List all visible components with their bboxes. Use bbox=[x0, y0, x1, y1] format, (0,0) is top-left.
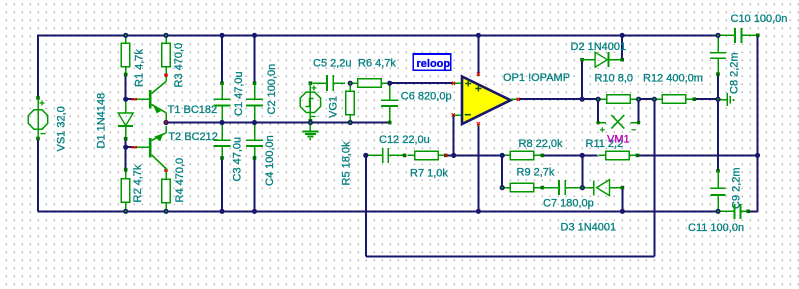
junction bottom rail C9 bbox=[715, 209, 720, 214]
resistor R9 bbox=[502, 183, 544, 192]
svg-text:C12 22,0u: C12 22,0u bbox=[379, 134, 430, 146]
svg-text:reloop: reloop bbox=[417, 58, 451, 70]
wire D3 anode to bottom rail bbox=[621, 188, 623, 212]
junction R8 R9 bbox=[500, 153, 505, 158]
svg-text:R3 470,0: R3 470,0 bbox=[173, 43, 185, 88]
junction D1 T2 base bbox=[123, 145, 128, 150]
svg-text:C11 100,0n: C11 100,0n bbox=[688, 222, 744, 234]
capacitor C11 bbox=[720, 204, 751, 219]
junction top rail opamp supply bbox=[476, 33, 481, 38]
capacitor C8 bbox=[710, 37, 726, 76]
resistor R3 bbox=[162, 35, 171, 77]
resistor R12 bbox=[654, 95, 696, 104]
svg-text:R8 22,0k: R8 22,0k bbox=[519, 138, 564, 150]
junction bottom rail R2 bbox=[123, 209, 128, 214]
svg-text:D3 1N4001: D3 1N4001 bbox=[561, 222, 617, 234]
diode D1 bbox=[118, 99, 133, 140]
junction bottom rail C3 bbox=[219, 209, 224, 214]
text box reloop bbox=[413, 54, 451, 70]
svg-text:C7 180,0p: C7 180,0p bbox=[543, 198, 594, 210]
junction top rail R3 bbox=[163, 33, 168, 38]
wire VM1 left terminal bbox=[597, 99, 599, 122]
svg-text:R10 8,0: R10 8,0 bbox=[595, 73, 634, 85]
capacitor C1 bbox=[214, 81, 231, 120]
wire C1 top bbox=[221, 35, 223, 83]
capacitor C2 bbox=[246, 81, 263, 120]
junction emitters ground bbox=[163, 120, 168, 125]
svg-text:VG1: VG1 bbox=[328, 96, 340, 118]
wire C7 to D3 node vertical bbox=[581, 155, 583, 187]
junction C7 D3 bbox=[580, 185, 585, 190]
junction top rail C1 bbox=[219, 33, 224, 38]
svg-text:R7 1,0k: R7 1,0k bbox=[410, 168, 448, 180]
wire D2 anode drop bbox=[581, 62, 583, 100]
wire top supply rail bbox=[37, 34, 719, 36]
svg-text:R9 2,7k: R9 2,7k bbox=[517, 167, 555, 179]
wire C4 bottom bbox=[254, 158, 256, 211]
wire noninverting input net bbox=[390, 82, 453, 84]
junction bottom rail opamp supply bbox=[476, 209, 481, 214]
wire C3 bottom bbox=[221, 158, 223, 211]
wire bottom rail bbox=[38, 210, 720, 212]
junction top rail C8 bbox=[715, 33, 720, 38]
wire VM1 right terminal bbox=[638, 99, 640, 122]
wire inverting input drop bbox=[453, 116, 455, 156]
junction output D2 bbox=[580, 97, 585, 102]
resistor R2 bbox=[121, 168, 130, 211]
resistor R5 bbox=[346, 85, 355, 121]
junction R8 R11 D3 bbox=[580, 153, 585, 158]
wire feedback net C12 to R8 bbox=[446, 154, 502, 156]
capacitor C6 bbox=[381, 85, 398, 124]
junction output R10 right bbox=[636, 97, 641, 102]
svg-text:C9 2,2m: C9 2,2m bbox=[731, 167, 743, 209]
wire opamp positive supply bbox=[477, 35, 479, 73]
svg-text:R12 400,0m: R12 400,0m bbox=[643, 73, 703, 85]
capacitor C4 bbox=[246, 125, 263, 160]
capacitor C12 bbox=[367, 148, 406, 163]
diode D3 bbox=[582, 180, 624, 196]
wire output node R10 to feedback tap bbox=[639, 98, 655, 100]
voltage source VS1 bbox=[28, 96, 47, 140]
wire R12 to C8 node bbox=[694, 98, 718, 100]
wire feedback net R8 to R11 bbox=[542, 154, 597, 156]
svg-text:C5 2,2u: C5 2,2u bbox=[313, 58, 352, 70]
junction inverting input bbox=[451, 153, 456, 158]
svg-text:VS1 32,0: VS1 32,0 bbox=[55, 106, 67, 151]
junction R6 C6 input bbox=[387, 81, 392, 86]
wire R1 to D1 node bbox=[125, 75, 127, 100]
voltage generator VG1 bbox=[300, 81, 320, 122]
junction ground VG1 bbox=[308, 120, 313, 125]
junction top rail D2 bbox=[620, 33, 625, 38]
junction bottom rail D3 bbox=[620, 209, 625, 214]
resistor R1 bbox=[121, 35, 130, 76]
capacitor C5 bbox=[313, 75, 346, 91]
ground bbox=[302, 125, 318, 139]
svg-text:T1 BC182: T1 BC182 bbox=[168, 104, 218, 116]
svg-text:C8 2,2m: C8 2,2m bbox=[729, 52, 741, 94]
resistor R7 bbox=[408, 151, 448, 160]
junction bottom rail C4 bbox=[252, 209, 257, 214]
svg-text:D2 1N4001: D2 1N4001 bbox=[571, 41, 627, 53]
op-amp U OP1 bbox=[452, 73, 520, 127]
wire opamp negative supply bbox=[477, 126, 479, 212]
junction R9 corner bbox=[500, 185, 505, 190]
wire feedback loop bottom bbox=[366, 256, 655, 258]
junction output feedback tap bbox=[652, 97, 657, 102]
wire R9 branch vertical bbox=[501, 155, 503, 187]
wire ground bus from emitters to C6 bbox=[166, 122, 390, 124]
svg-text:R5 18,0k: R5 18,0k bbox=[341, 141, 353, 186]
capacitor C10 bbox=[719, 28, 760, 43]
resistor R10 bbox=[598, 95, 639, 104]
resistor R8 bbox=[502, 151, 544, 160]
diode D2 bbox=[580, 52, 624, 67]
svg-text:C2 100,0n: C2 100,0n bbox=[266, 64, 278, 115]
svg-text:R4 470,0: R4 470,0 bbox=[174, 158, 186, 203]
junction top rail R1 bbox=[123, 33, 128, 38]
wire C8 to C9 column bbox=[717, 74, 719, 171]
svg-text:C6 820,0p: C6 820,0p bbox=[401, 91, 452, 103]
junction output R10 left bbox=[596, 97, 601, 102]
wire bottom rail right stub to corner bbox=[748, 210, 757, 212]
junction D1 T1 base bbox=[123, 97, 128, 102]
junction ground C1 C3 bbox=[219, 120, 224, 125]
wire feedback loop left vertical bbox=[365, 155, 367, 256]
svg-text:C4 100,0n: C4 100,0n bbox=[264, 135, 276, 186]
wire right vertical (C10 to C11) bbox=[757, 35, 759, 211]
capacitor C7 bbox=[543, 180, 580, 195]
svg-text:D1 1N4148: D1 1N4148 bbox=[95, 93, 107, 149]
svg-text:R2 4,7k: R2 4,7k bbox=[132, 164, 144, 202]
voltmeter VM1 bbox=[597, 115, 641, 132]
svg-text:VM1: VM1 bbox=[607, 133, 630, 145]
svg-text:R6 4,7k: R6 4,7k bbox=[358, 58, 396, 70]
capacitor C3 bbox=[214, 125, 231, 160]
wire feedback net R11 to right node bbox=[638, 154, 758, 156]
junction bottom rail R4 bbox=[163, 209, 168, 214]
wire opamp output to D2 node bbox=[519, 98, 598, 100]
junction ground C2 C4 bbox=[252, 120, 257, 125]
svg-text:C1 47,0u: C1 47,0u bbox=[233, 71, 245, 116]
junction ground R5 bbox=[348, 120, 353, 125]
wire T2 base stub bbox=[126, 146, 134, 148]
svg-text:T2 BC212: T2 BC212 bbox=[168, 131, 218, 143]
wire left vertical from VS1 to top rail bbox=[37, 35, 39, 98]
svg-text:R1 4,7k: R1 4,7k bbox=[133, 49, 145, 87]
transistor Q T2 bbox=[131, 126, 166, 170]
wire D1 to T2 base node to R2 bbox=[125, 139, 127, 170]
junction C5 R5 R6 bbox=[348, 81, 353, 86]
junction right node bbox=[755, 153, 760, 158]
resistor R6 bbox=[352, 79, 387, 88]
svg-text:C3 47,0u: C3 47,0u bbox=[232, 137, 244, 182]
wire feedback loop right vertical bbox=[653, 99, 655, 256]
resistor R11 bbox=[599, 151, 640, 160]
wire T1 base stub bbox=[126, 98, 134, 100]
wire D2 cathode to top rail bbox=[621, 35, 623, 58]
svg-text:C10 100,0n: C10 100,0n bbox=[731, 13, 788, 25]
svg-text:OP1 !OPAMP: OP1 !OPAMP bbox=[503, 72, 570, 84]
capacitor C9 bbox=[711, 169, 726, 210]
junction output C8 C9 bbox=[715, 97, 720, 102]
junction top rail C2 bbox=[252, 33, 257, 38]
resistor R4 bbox=[162, 169, 171, 212]
wire C2 top bbox=[254, 35, 256, 83]
transistor Q T1 bbox=[131, 77, 166, 121]
wire left vertical from VS1 to bottom rail bbox=[37, 139, 39, 211]
junction feedback C12 bbox=[363, 153, 368, 158]
pin marker at C8 node bbox=[720, 93, 735, 106]
